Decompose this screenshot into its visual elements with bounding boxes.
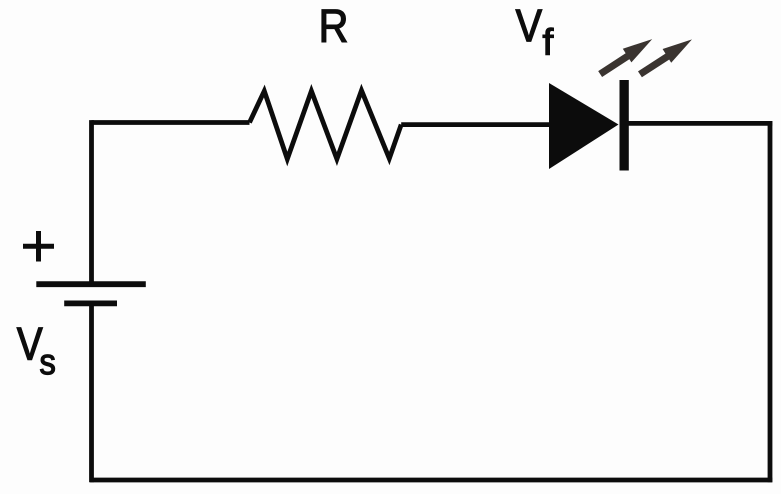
wire left vertical lower — [89, 303, 94, 482]
plus polarity symbol — [23, 231, 54, 262]
label Vf — [516, 10, 542, 42]
resistor R — [250, 91, 402, 160]
LED D1 anode triangle — [549, 83, 619, 169]
light emission arrow 2 — [638, 39, 692, 77]
wire right vertical — [768, 121, 773, 482]
wire resistor to LED — [401, 122, 551, 127]
wire top-left horizontal — [92, 120, 250, 125]
battery Vs negative plate — [64, 300, 117, 306]
label Vs — [17, 328, 43, 360]
LED D1 cathode bar — [620, 80, 629, 171]
wire bottom horizontal — [90, 478, 772, 483]
light emission arrow 1 — [598, 39, 652, 77]
label R — [322, 10, 347, 42]
battery Vs positive plate — [36, 281, 146, 287]
wire left vertical upper — [89, 120, 94, 281]
wire LED to right — [627, 121, 772, 126]
